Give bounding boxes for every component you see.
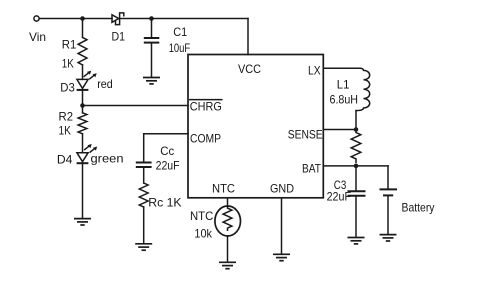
- svg-text:6.8uH: 6.8uH: [330, 93, 359, 107]
- pin label CHRG: [190, 100, 222, 114]
- wire R1 top lead: [82, 19, 84, 38]
- svg-text:BAT: BAT: [302, 162, 322, 176]
- svg-text:1K: 1K: [59, 124, 72, 138]
- svg-text:NTC: NTC: [212, 182, 235, 196]
- LED D3: [77, 71, 97, 90]
- svg-text:10uF: 10uF: [169, 41, 191, 55]
- wire BAT: [323, 165, 388, 167]
- svg-text:D1: D1: [112, 30, 126, 44]
- svg-text:L1: L1: [337, 78, 350, 92]
- wire R2 top lead: [82, 106, 84, 113]
- wire Rc to ground: [143, 207, 145, 244]
- svg-text:D3: D3: [60, 81, 75, 95]
- ground under C3: [348, 238, 365, 244]
- svg-text:NTC: NTC: [190, 209, 214, 223]
- thermistor NTC: [215, 206, 241, 236]
- svg-text:LX: LX: [308, 64, 321, 78]
- ground under Rc: [135, 244, 152, 250]
- svg-text:COMP: COMP: [190, 132, 221, 146]
- wire top rail right: [120, 18, 248, 20]
- wire top rail left: [39, 18, 112, 20]
- capacitor Cc: [136, 163, 152, 184]
- ground under GND pin: [273, 254, 290, 260]
- inductor L1: [356, 68, 370, 110]
- svg-text:red: red: [97, 77, 113, 91]
- wire CHRG: [83, 105, 189, 107]
- wire GND pin: [281, 198, 283, 254]
- svg-text:R1: R1: [62, 38, 77, 52]
- resistor R2: [78, 113, 87, 134]
- ground under D4: [74, 219, 91, 225]
- svg-text:D4: D4: [57, 153, 73, 167]
- svg-text:Rc 1K: Rc 1K: [148, 196, 181, 210]
- svg-text:green: green: [91, 152, 124, 166]
- ground under NTC: [219, 262, 236, 268]
- junction R1 tap: [80, 16, 85, 21]
- svg-text:GND: GND: [270, 182, 294, 196]
- wire R1 to D3: [82, 65, 84, 80]
- wire COMP: [144, 134, 188, 162]
- resistor R1: [78, 37, 87, 65]
- wire SENSE: [323, 129, 356, 131]
- capacitor C1: [144, 19, 160, 77]
- resistor Rc: [139, 183, 148, 207]
- wire LX: [323, 67, 360, 69]
- svg-text:22uF: 22uF: [327, 190, 351, 204]
- wire NTC pin: [227, 198, 229, 207]
- wire L1 to SENSE junction: [355, 111, 357, 130]
- wire D4 to ground: [82, 163, 84, 218]
- junction BAT: [354, 164, 359, 169]
- svg-text:Cc: Cc: [160, 144, 174, 158]
- LED D4: [77, 144, 98, 163]
- svg-text:VCC: VCC: [238, 62, 261, 76]
- svg-text:R2: R2: [59, 110, 74, 124]
- wire R2 to D4: [82, 134, 84, 153]
- svg-text:CHRG: CHRG: [190, 100, 222, 114]
- wire NTC to ground: [227, 236, 229, 262]
- svg-text:Battery: Battery: [402, 201, 435, 215]
- diode D1: [112, 13, 124, 25]
- ground under battery: [380, 235, 397, 241]
- svg-text:Vin: Vin: [29, 30, 46, 44]
- svg-text:22uF: 22uF: [156, 159, 180, 173]
- ground under C1: [143, 78, 160, 84]
- terminal Vin: [34, 16, 39, 21]
- capacitor C3: [348, 166, 366, 237]
- svg-text:SENSE: SENSE: [288, 128, 323, 142]
- svg-text:10k: 10k: [194, 227, 212, 241]
- resistor sense: [351, 130, 361, 163]
- wire VCC drop: [247, 19, 249, 55]
- junction SENSE: [354, 127, 359, 132]
- junction C1 tap: [149, 16, 154, 21]
- svg-text:C1: C1: [173, 25, 187, 39]
- junction CHRG tap: [80, 103, 85, 108]
- svg-text:1K: 1K: [62, 57, 74, 71]
- wire D3 to junction: [82, 90, 84, 106]
- op-amp U1 IC box: [188, 55, 323, 198]
- battery: [380, 166, 398, 234]
